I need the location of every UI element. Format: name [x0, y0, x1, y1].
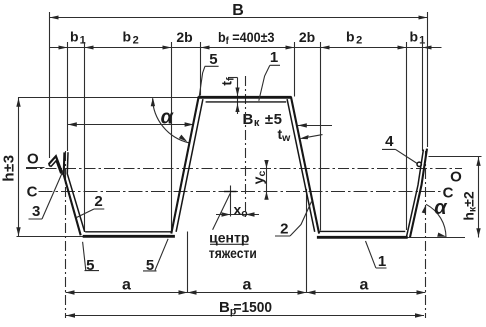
svg-text:5: 5	[209, 51, 217, 68]
svg-text:h±3: h±3	[0, 154, 17, 181]
dimension tf	[237, 78, 239, 115]
left outer web inner line	[67, 152, 84, 232]
svg-text:5: 5	[86, 257, 94, 274]
extension line bottom flange level right	[408, 237, 466, 239]
dimension xo	[216, 214, 259, 216]
extension line top flange level left	[18, 97, 199, 99]
svg-text:3: 3	[32, 203, 40, 220]
dimension h left	[18, 98, 20, 237]
axis rib boundary right	[425, 151, 427, 318]
extension line x422	[422, 42, 424, 151]
svg-text:b1: b1	[70, 29, 86, 47]
svg-text:1: 1	[378, 253, 386, 270]
center of gravity vertical	[230, 186, 232, 217]
separator line a2/a3	[306, 189, 308, 293]
dimension Bp line	[66, 315, 424, 317]
svg-text:1: 1	[270, 49, 278, 66]
axis rib boundary left	[65, 151, 67, 318]
dimension Bk line right part	[298, 125, 332, 127]
svg-text:2: 2	[94, 193, 102, 210]
arrows row2	[59, 46, 68, 50]
dimension hk right	[478, 157, 480, 238]
right outer web outer line	[410, 149, 427, 238]
left rib inner web outer line	[171, 97, 198, 234]
right rib bottom flange inner	[319, 230, 405, 232]
dimension B line	[50, 17, 428, 19]
O underline	[26, 167, 45, 169]
angle arc right	[426, 204, 446, 237]
svg-text:C: C	[27, 184, 38, 201]
leader item 1 bottom	[366, 241, 387, 268]
leader center of gravity	[210, 193, 249, 244]
svg-text:=1500: =1500	[234, 299, 273, 316]
angle arc left	[153, 98, 189, 143]
svg-text:tw: tw	[278, 126, 292, 144]
extension line x85	[84, 42, 86, 232]
leader tw	[308, 135, 323, 138]
svg-text:2b: 2b	[176, 29, 192, 45]
leader dot item 4	[417, 162, 421, 166]
center of gravity cross	[224, 191, 237, 193]
svg-text:a: a	[360, 277, 369, 294]
leader item 5 top	[199, 66, 218, 96]
svg-text:tf: tf	[219, 77, 237, 86]
extension line x427	[427, 12, 429, 147]
extension line x49	[49, 12, 51, 158]
extension line x320	[320, 42, 322, 231]
dimension yc	[266, 160, 268, 200]
svg-text:a: a	[122, 277, 131, 294]
svg-text:a: a	[243, 277, 252, 294]
second dimension row line	[50, 47, 442, 49]
edge groove outer	[49, 156, 63, 174]
svg-text:Bк±5: Bк±5	[243, 111, 283, 129]
axis center vertical	[245, 76, 247, 218]
leader item 4	[382, 149, 417, 163]
top flange inner	[206, 101, 287, 103]
right rib bottom flange outer	[317, 236, 408, 239]
svg-text:hк±2: hк±2	[461, 191, 479, 221]
left outer web outer line	[64, 152, 81, 235]
svg-text:5: 5	[146, 257, 154, 274]
left rib inner web inner line	[176, 99, 203, 232]
svg-text:тяжести: тяжести	[209, 245, 257, 261]
svg-text:O: O	[450, 169, 462, 186]
extension line x200	[200, 42, 202, 96]
leader item 5 bottom right	[143, 239, 168, 271]
svg-text:2b: 2b	[299, 29, 315, 45]
svg-text:bf =400±3: bf =400±3	[218, 29, 275, 47]
svg-text:O: O	[27, 151, 39, 168]
leader item 1 top	[259, 65, 280, 101]
leader item 2 left	[77, 209, 105, 218]
axis C-C	[39, 191, 444, 193]
svg-text:центр: центр	[209, 230, 249, 246]
right rib inner web outer line	[291, 97, 319, 234]
edge groove tip cap	[49, 164, 51, 167]
svg-text:yc: yc	[250, 171, 268, 185]
edge groove inner	[51, 161, 61, 174]
leader item 2 right	[275, 202, 312, 237]
svg-text:2: 2	[280, 221, 288, 238]
dimension Bk line left part	[68, 124, 194, 126]
extension line x295	[294, 42, 296, 97]
separator line a1/a2	[187, 232, 189, 293]
extension line x67	[67, 42, 69, 151]
svg-text:b2: b2	[123, 29, 139, 47]
extension line x172	[171, 42, 173, 232]
svg-text:B: B	[232, 2, 244, 19]
extension line lip level right	[429, 156, 482, 158]
dimension a line	[66, 292, 426, 294]
svg-text:α: α	[161, 107, 175, 129]
left rib bottom flange outer	[83, 235, 175, 238]
extension line x406	[406, 42, 408, 230]
right rib inner web inner line	[287, 99, 315, 232]
top flange outer	[198, 96, 291, 99]
leader item 5 bottom left	[83, 242, 99, 271]
leader item 3	[29, 171, 64, 220]
left rib bottom flange inner	[85, 231, 172, 233]
extension line bottom flange level left	[17, 236, 84, 238]
svg-text:α: α	[434, 197, 448, 219]
axis O-O	[26, 168, 462, 170]
right outer web inner line	[407, 150, 424, 237]
svg-text:b2: b2	[346, 29, 362, 47]
svg-text:4: 4	[385, 133, 394, 150]
